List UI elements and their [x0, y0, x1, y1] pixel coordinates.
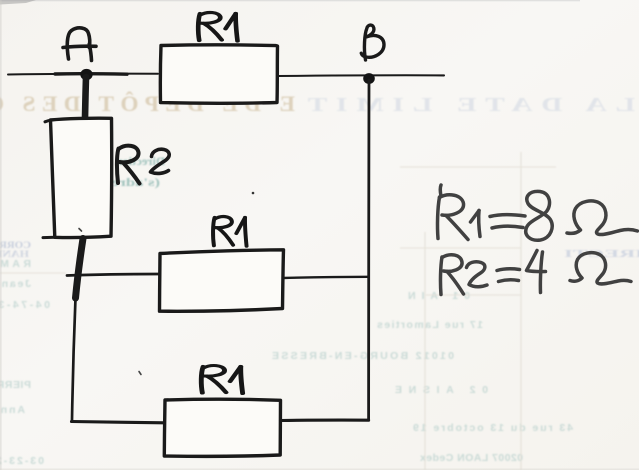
wire R2 down (thick): [76, 239, 84, 299]
wire top-right segment (R1 right to past B): [278, 74, 444, 77]
top edge line: [0, 0, 580, 1]
stray pen dots: [252, 192, 255, 195]
resistor R2 box: [51, 118, 112, 237]
svg-text:04-74-32: 04-74-32: [0, 299, 50, 311]
wire overdraw near node A: [55, 72, 127, 76]
svg-text:02007 LAON Cedex: 02007 LAON Cedex: [420, 452, 523, 464]
label R1 (bottom): [201, 366, 242, 394]
top-left dark smudge: [0, 0, 36, 5]
svg-text:RAMA: RAMA: [0, 258, 31, 270]
wire middle branch left: [67, 274, 159, 276]
wire middle branch right: [283, 277, 368, 278]
label R1 (middle): [213, 216, 247, 246]
teal table entries (mirrored): [0, 258, 573, 467]
label R2 (rotated handwriting): [117, 146, 169, 184]
wire bottom branch left: [72, 422, 165, 423]
svg-text:Jean-C: Jean-C: [0, 278, 31, 290]
R2 box overshoot strokes: [43, 120, 55, 238]
svg-text:43 rue du 13 octobre 19: 43 rue du 13 octobre 19: [413, 422, 573, 434]
bottom edge shade: [0, 469, 639, 470]
label B: [361, 25, 384, 60]
wire bottom branch right: [281, 419, 369, 422]
left edge shade: [0, 0, 2, 470]
node A junction dot: [80, 69, 92, 80]
node B junction dot: [363, 73, 375, 84]
wire top-left segment: [8, 73, 158, 76]
resistor R1 middle box: [160, 250, 284, 311]
wire left vertical lower: [72, 298, 76, 420]
wire node A down to R2: [85, 77, 86, 118]
resistor R1 bottom box: [164, 399, 280, 456]
label A: [63, 28, 96, 61]
value label R2 = 4 ohm: [440, 257, 442, 295]
svg-text:17 rue Lamorties: 17 rue Lamorties: [377, 319, 483, 331]
resistor R1 top box: [160, 45, 277, 103]
faint table grid lines: [0, 152, 556, 470]
wire right vertical (B down): [367, 80, 370, 420]
svg-text:PIERRE: PIERRE: [0, 379, 31, 391]
value label R1 = 8 ohm: [439, 185, 443, 196]
svg-text:Anne: Anne: [0, 404, 25, 416]
label R1 (top): [198, 13, 237, 42]
svg-text:LA DATE LIMIT: LA DATE LIMIT: [299, 94, 635, 116]
small inner tick right edge of R1 top: [276, 68, 279, 75]
